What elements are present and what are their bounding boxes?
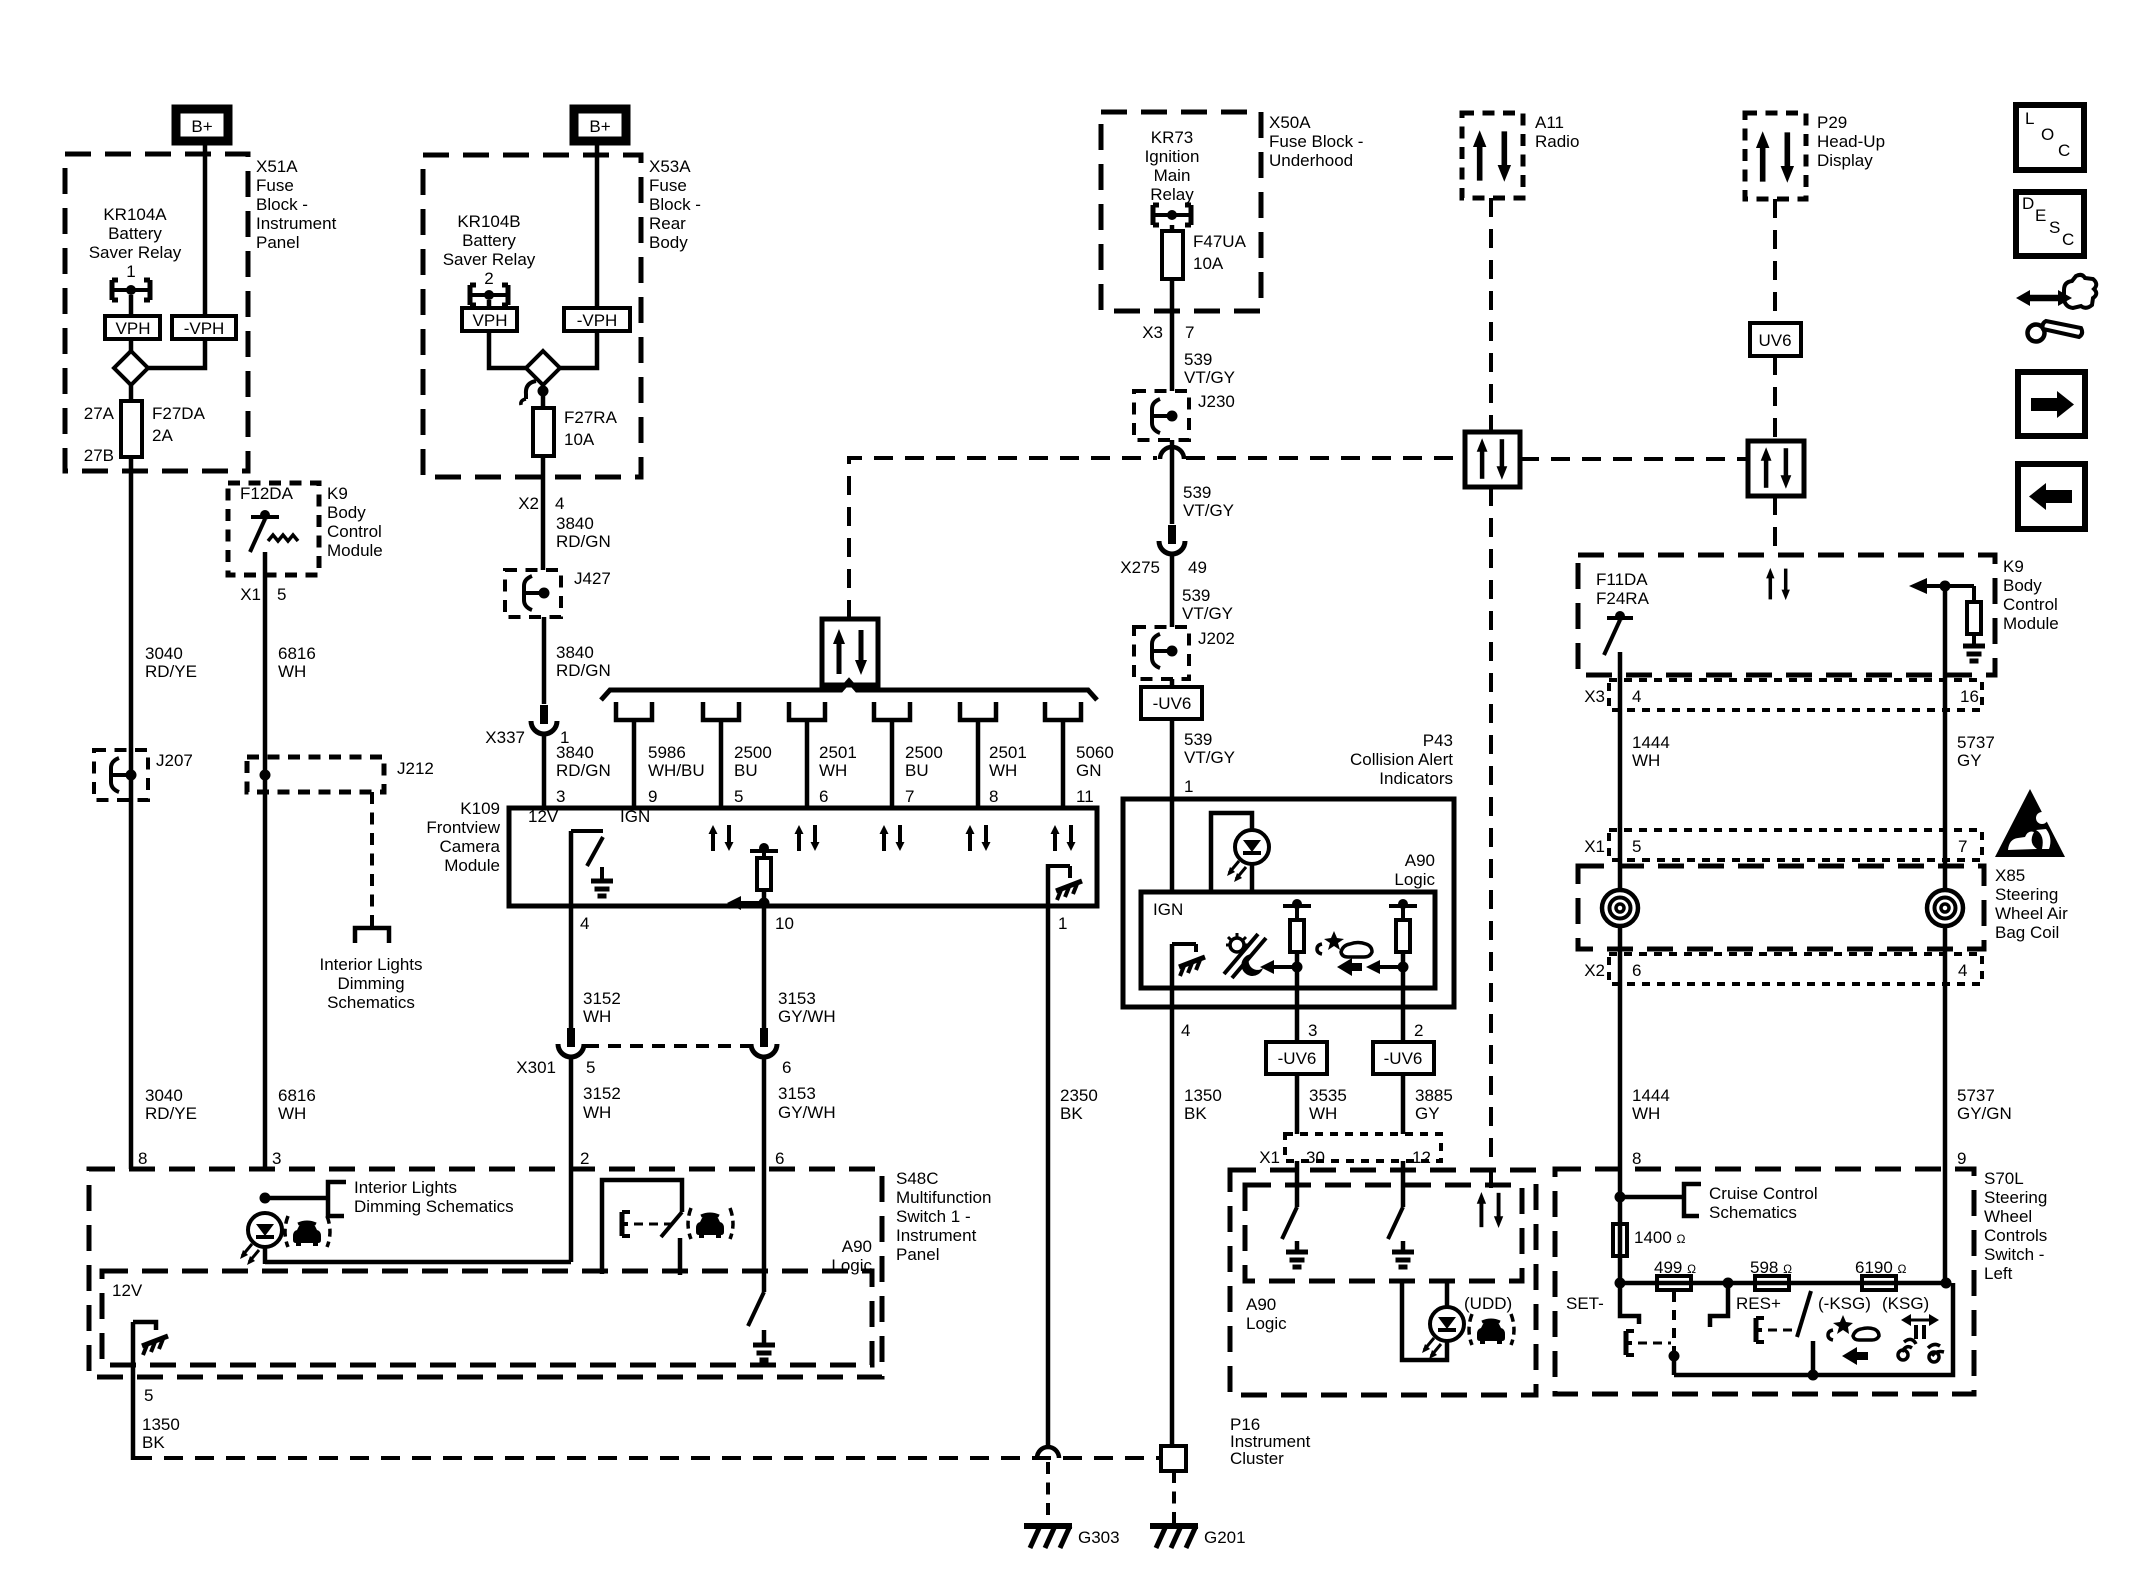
icon forward collision alert: [1828, 1315, 1879, 1365]
terminal box -VPH 2: [564, 308, 630, 331]
wire F27DA down to J207: [129, 457, 134, 770]
wire 5737 below coil: [1943, 926, 1948, 1283]
svg-text:Indicators: Indicators: [1379, 769, 1453, 788]
connector X337: [531, 705, 557, 734]
svg-text:Rear: Rear: [649, 214, 686, 233]
svg-text:Main: Main: [1154, 166, 1191, 185]
svg-text:3840: 3840: [556, 643, 594, 662]
svg-text:X1: X1: [1584, 837, 1605, 856]
air bag coil spiral right: [1927, 890, 1963, 926]
boxed double-arrow node above brace: [822, 619, 878, 685]
label 2501 WH pin 6: [819, 743, 857, 806]
label 3153 GY/WH above X301: [778, 989, 836, 1026]
svg-text:UV6: UV6: [1758, 331, 1791, 350]
svg-text:J202: J202: [1198, 629, 1235, 648]
svg-text:3153: 3153: [778, 989, 816, 1008]
wire switch to X3 band (1444): [1618, 652, 1623, 891]
svg-text:C: C: [2062, 230, 2074, 249]
label 2501 WH pin 8: [989, 743, 1027, 806]
svg-text:Bag Coil: Bag Coil: [1995, 923, 2059, 942]
svg-text:Instrument: Instrument: [896, 1226, 977, 1245]
svg-text:49: 49: [1188, 558, 1207, 577]
svg-text:F24RA: F24RA: [1596, 589, 1650, 608]
wire F12DA to S48C pin 3: [263, 552, 268, 1169]
label 3153 GY/WH below X301: [778, 1084, 836, 1122]
svg-text:Collision Alert: Collision Alert: [1350, 750, 1453, 769]
loop bottom edge: [265, 1260, 571, 1265]
svg-text:P43: P43: [1423, 731, 1453, 750]
svg-text:Body: Body: [649, 233, 688, 252]
svg-text:J207: J207: [156, 751, 193, 770]
dashed wire A11 down to arrow node: [1489, 198, 1493, 432]
label 5986 WH/BU pin 9: [648, 743, 705, 806]
bracket to interior lights dimming: [328, 1182, 346, 1216]
arrows inside K109 under pin 5: [709, 825, 734, 851]
switch to ground P16 pin 30: [1282, 1207, 1308, 1267]
svg-text:A90: A90: [1405, 851, 1435, 870]
svg-text:-VPH: -VPH: [577, 311, 618, 330]
svg-text:B+: B+: [589, 117, 610, 136]
relay coil KR104B: [470, 285, 508, 305]
svg-text:WH: WH: [1309, 1104, 1337, 1123]
A90 logic inner box P43: [1141, 892, 1435, 988]
svg-text:5060: 5060: [1076, 743, 1114, 762]
brace over K109 pins: [601, 681, 1097, 700]
svg-text:9: 9: [1957, 1149, 1966, 1168]
svg-text:4: 4: [580, 914, 589, 933]
svg-text:3040: 3040: [145, 1086, 183, 1105]
junction dot bottom bus: [1808, 1370, 1819, 1381]
wire X275 to J202: [1170, 556, 1175, 627]
svg-text:Ignition: Ignition: [1145, 147, 1200, 166]
svg-text:6: 6: [819, 787, 828, 806]
KSG switch blade: [1797, 1291, 1811, 1337]
svg-text:KR73: KR73: [1151, 128, 1194, 147]
dashed drop to G303: [1046, 1462, 1050, 1524]
wires X1 band into P16: [1297, 1161, 1403, 1207]
wire diamond to fuse F27DA: [129, 385, 134, 401]
svg-text:27A: 27A: [84, 404, 115, 423]
svg-text:Control: Control: [2003, 595, 2058, 614]
dashed wire arrow node to K9: [1773, 496, 1777, 557]
svg-text:A11: A11: [1535, 113, 1564, 132]
svg-text:Panel: Panel: [256, 233, 299, 252]
switch F11DA/F24RA: [1604, 611, 1633, 655]
terminal box VPH 2: [462, 308, 517, 331]
svg-text:Left: Left: [1984, 1264, 2013, 1283]
label 2350 BK: [1060, 1086, 1098, 1123]
wire coil to VPH 2: [487, 300, 492, 308]
label 1350 BK (left): [142, 1415, 180, 1452]
E linkage SET-: [1626, 1331, 1671, 1355]
svg-text:2350: 2350: [1060, 1086, 1098, 1105]
connector band X1 (X85): [1609, 830, 1982, 860]
hop of 2350 wire over dashed path: [1037, 1447, 1059, 1458]
svg-text:Relay: Relay: [1150, 185, 1194, 204]
svg-text:1: 1: [1058, 914, 1067, 933]
svg-text:WH: WH: [819, 761, 847, 780]
pin connector U 5: [703, 702, 739, 808]
svg-text:5: 5: [586, 1058, 595, 1077]
label P29 Head-Up Display: [1817, 113, 1885, 170]
svg-text:10A: 10A: [1193, 254, 1224, 273]
wire diamond to fuse F27RA: [541, 385, 546, 408]
pin connector U 7: [874, 702, 910, 808]
svg-text:X1: X1: [1259, 1148, 1280, 1167]
label wire 6816 WH lower: [278, 1086, 316, 1123]
label 1444 WH (upper): [1632, 733, 1670, 770]
wire B+2 to -VPH: [595, 145, 600, 308]
svg-text:1350: 1350: [1184, 1086, 1222, 1105]
svg-text:C: C: [2058, 141, 2070, 160]
SET- switch contact: [1620, 1283, 1639, 1324]
label A90 Logic (S48C): [831, 1237, 872, 1275]
svg-text:539: 539: [1184, 350, 1212, 369]
B+ terminal 1: [176, 109, 228, 141]
svg-text:4: 4: [1958, 961, 1967, 980]
svg-text:Battery: Battery: [462, 231, 516, 250]
svg-text:KR104A: KR104A: [103, 205, 167, 224]
svg-text:12V: 12V: [112, 1281, 143, 1300]
svg-text:Fuse Block -: Fuse Block -: [1269, 132, 1363, 151]
label A90 Logic (P43): [1394, 851, 1435, 889]
icon button LOC: [2016, 105, 2084, 170]
wire to cruise bracket: [1620, 1195, 1684, 1200]
svg-text:1444: 1444: [1632, 733, 1670, 752]
labels X1 30 12: [1259, 1148, 1431, 1167]
diamond node KR104A: [114, 351, 148, 385]
label wire 3040 RD/YE lower: [145, 1086, 197, 1123]
svg-text:K9: K9: [2003, 557, 2024, 576]
label Interior Lights Dimming Schematics (S48C): [354, 1178, 514, 1216]
label 5737 GY: [1957, 733, 1995, 770]
A11 Radio dashed box: [1462, 113, 1523, 198]
option box -UV6 (539): [1141, 687, 1202, 719]
svg-text:WH: WH: [583, 1007, 611, 1026]
svg-text:Wheel Air: Wheel Air: [1995, 904, 2068, 923]
collision car icon P43: [1317, 931, 1372, 957]
svg-text:RD/GN: RD/GN: [556, 532, 611, 551]
label X53A Fuse Block - Rear Body: [649, 157, 701, 252]
svg-text:8: 8: [138, 1149, 147, 1168]
label KR73 Ignition Main Relay: [1145, 128, 1200, 204]
chassis ground inside K109 (pin 1): [1048, 864, 1082, 906]
svg-text:X2: X2: [518, 494, 539, 513]
arrows in P16 from radio line: [1477, 1192, 1504, 1228]
svg-text:Steering: Steering: [1995, 885, 2058, 904]
svg-text:Control: Control: [327, 522, 382, 541]
svg-text:GY: GY: [1957, 751, 1982, 770]
diamond node KR104B: [526, 351, 560, 385]
boxed double-arrow node (P29 line): [1748, 441, 1804, 496]
svg-text:VT/GY: VT/GY: [1184, 368, 1235, 387]
svg-text:Wheel: Wheel: [1984, 1207, 2032, 1226]
relay coil KR104A: [112, 280, 150, 300]
relay coil KR73: [1153, 205, 1191, 225]
svg-text:X51A: X51A: [256, 157, 298, 176]
svg-text:3885: 3885: [1415, 1086, 1453, 1105]
wire 1444 through S70L: [1618, 1169, 1623, 1283]
wire B+1 to -VPH: [203, 145, 208, 316]
svg-text:3840: 3840: [556, 514, 594, 533]
svg-text:9: 9: [648, 787, 657, 806]
svg-text:J212: J212: [397, 759, 434, 778]
LED branch in P43: [1211, 813, 1269, 892]
label 5060 GN pin 11: [1076, 743, 1114, 806]
label A90 Logic (P16): [1246, 1295, 1287, 1333]
svg-text:Logic: Logic: [1246, 1314, 1287, 1333]
svg-text:27B: 27B: [84, 446, 114, 465]
wire junction to bottom bus: [1672, 1356, 1677, 1375]
svg-text:3040: 3040: [145, 644, 183, 663]
svg-text:11: 11: [1076, 787, 1094, 806]
svg-text:Cruise Control: Cruise Control: [1709, 1184, 1818, 1203]
wire 1444 below coil: [1618, 926, 1623, 1169]
wire VPH2 to diamond: [489, 331, 526, 368]
svg-text:X50A: X50A: [1269, 113, 1311, 132]
labels X1 5 7: [1584, 837, 1967, 856]
wire X337 to K109 pin 3: [542, 736, 547, 808]
svg-text:WH: WH: [278, 1104, 306, 1123]
svg-text:3: 3: [272, 1149, 281, 1168]
svg-text:Body: Body: [2003, 576, 2042, 595]
air bag coil spiral left: [1602, 890, 1638, 926]
label K9 Body Control Module (right): [2003, 557, 2059, 633]
label S48C Multifunction Switch 1 - Instrument Panel: [896, 1169, 991, 1264]
wire X301-5 to S48C pin 2: [569, 1059, 574, 1262]
car icon beside LED: [285, 1216, 330, 1247]
RES+ switch contact: [1710, 1283, 1728, 1327]
fuse block X51A dashed box: [65, 154, 248, 471]
svg-text:A90: A90: [842, 1237, 872, 1256]
bottom bus S70L: [1674, 1373, 1813, 1378]
dashed wire A11 node down to P16: [1489, 487, 1493, 1192]
dashed drop to G201: [1172, 1471, 1176, 1524]
wire -VPH to diamond: [148, 339, 205, 368]
A90 logic dashed box S48C: [102, 1271, 872, 1365]
svg-text:3535: 3535: [1309, 1086, 1347, 1105]
svg-text:J230: J230: [1198, 392, 1235, 411]
wire P43 pin4 (1350 BK) to G201 square: [1170, 1007, 1175, 1446]
label X275 pin 49: [1120, 558, 1207, 577]
switch to ground inside K109 (pin 4): [571, 831, 613, 906]
svg-text:F12DA: F12DA: [240, 484, 294, 503]
svg-text:Fuse: Fuse: [256, 176, 294, 195]
svg-text:Saver Relay: Saver Relay: [443, 250, 536, 269]
svg-text:K109: K109: [460, 799, 500, 818]
svg-text:1: 1: [1184, 777, 1193, 796]
svg-text:E: E: [2035, 206, 2046, 225]
IGN wire to chassis ground in P43: [1172, 944, 1205, 1007]
wire coil to fuse F47UA: [1170, 225, 1175, 231]
E linkage symbol headlamp: [622, 1212, 671, 1236]
label 539 VT/GY (4) and pin 1: [1184, 730, 1235, 796]
resistor 1400 ohm: [1613, 1224, 1686, 1256]
ground G201: [1150, 1526, 1246, 1548]
svg-text:-UV6: -UV6: [1278, 1049, 1317, 1068]
switch blade 3153 to ground: [748, 1292, 775, 1360]
svg-text:Multifunction: Multifunction: [896, 1188, 991, 1207]
svg-text:WH: WH: [989, 761, 1017, 780]
label 3152 WH above X301: [583, 989, 621, 1026]
B+ terminal 2: [574, 109, 626, 141]
svg-text:Block -: Block -: [649, 195, 701, 214]
label X301 pins 5 6: [516, 1058, 791, 1077]
K9 Body Control Module dashed box (right): [1578, 555, 1995, 675]
icon gesture control: [1898, 1314, 1944, 1362]
svg-text:2501: 2501: [819, 743, 857, 762]
svg-text:8: 8: [1632, 1149, 1641, 1168]
wire -UV6 to P43: [1170, 719, 1175, 892]
dashed wire A11 arrows to P29 arrows: [1520, 457, 1748, 461]
option box -UV6 (3535): [1266, 1042, 1327, 1074]
svg-text:539: 539: [1182, 586, 1210, 605]
label 3885 GY: [1415, 1086, 1453, 1123]
svg-text:Block -: Block -: [256, 195, 308, 214]
svg-text:7: 7: [1958, 837, 1967, 856]
G201 connection square: [1161, 1446, 1186, 1471]
svg-text:BK: BK: [1184, 1104, 1207, 1123]
A90 logic dashed box P16: [1245, 1185, 1522, 1281]
resistor with tap inside K109: [727, 843, 778, 910]
svg-text:RD/GN: RD/GN: [556, 761, 611, 780]
svg-text:Frontview: Frontview: [426, 818, 500, 837]
wire coil to VPH: [129, 295, 134, 316]
off-page bracket interior lights: [355, 928, 389, 943]
svg-text:WH: WH: [1632, 751, 1660, 770]
label wire 3040 RD/YE upper: [145, 644, 197, 681]
headlamp switch frame in S48C: [602, 1180, 682, 1275]
svg-text:2: 2: [1414, 1021, 1423, 1040]
svg-text:10: 10: [775, 914, 794, 933]
svg-text:Controls: Controls: [1984, 1226, 2047, 1245]
svg-text:Schematics: Schematics: [327, 993, 415, 1012]
svg-text:5: 5: [277, 585, 286, 604]
label 539 VT/GY (1): [1184, 350, 1235, 387]
label 539 VT/GY (3): [1182, 586, 1233, 623]
pin row X3 7: [1142, 323, 1194, 342]
svg-text:RD/GN: RD/GN: [556, 661, 611, 680]
label 3840 RD/GN (3) and pin 3: [556, 743, 611, 806]
hop of dashed line over 539 wire: [1160, 447, 1184, 459]
svg-text:GY/GN: GY/GN: [1957, 1104, 2012, 1123]
resistor bus S70L: [1620, 1281, 1946, 1286]
svg-text:IGN: IGN: [620, 807, 650, 826]
svg-text:IGN: IGN: [1153, 900, 1183, 919]
svg-text:RES+: RES+: [1736, 1294, 1781, 1313]
fuse block X53A dashed box: [423, 155, 641, 477]
svg-text:X1: X1: [240, 585, 261, 604]
resistor 598 ohm: [1750, 1258, 1792, 1290]
svg-text:5737: 5737: [1957, 733, 1995, 752]
svg-text:3: 3: [1308, 1021, 1317, 1040]
svg-text:BK: BK: [1060, 1104, 1083, 1123]
svg-text:30: 30: [1306, 1148, 1325, 1167]
arrows inside K9 top: [1766, 568, 1790, 600]
icon button arrow right: [2018, 372, 2085, 436]
wire F47UA to J230: [1170, 279, 1175, 391]
splice J427: [505, 569, 611, 617]
wires -UV6 to X1 band: [1297, 1074, 1403, 1134]
svg-text:BU: BU: [734, 761, 758, 780]
connector X301 right half: [751, 1028, 777, 1057]
terminal box VPH: [105, 316, 160, 339]
pin connector U 6: [789, 702, 825, 808]
svg-text:5: 5: [734, 787, 743, 806]
fuse block X50A dashed box: [1101, 112, 1261, 311]
label F47UA 10A: [1193, 232, 1247, 273]
K109 Frontview Camera Module box: [509, 808, 1097, 906]
svg-text:F27DA: F27DA: [152, 404, 206, 423]
P29 Head-Up Display dashed box: [1745, 113, 1806, 199]
airbag warning triangle: [1995, 789, 2065, 857]
X85 Steering Wheel Air Bag Coil dashed box: [1578, 866, 1984, 949]
dashed branch J212 to interior lights: [370, 792, 374, 926]
auto headlamp sun icon P43: [1224, 933, 1266, 978]
svg-text:1350: 1350: [142, 1415, 180, 1434]
svg-text:WH/BU: WH/BU: [648, 761, 705, 780]
switch to ground P16 pin 12: [1388, 1207, 1414, 1267]
option box UV6: [1750, 323, 1801, 356]
svg-text:Fuse: Fuse: [649, 176, 687, 195]
svg-text:2500: 2500: [905, 743, 943, 762]
svg-text:X85: X85: [1995, 866, 2025, 885]
wire J427 to X337: [542, 617, 547, 704]
svg-text:BU: BU: [905, 761, 929, 780]
svg-text:2: 2: [484, 269, 493, 288]
svg-text:(-KSG): (-KSG): [1818, 1294, 1871, 1313]
svg-text:S: S: [2049, 218, 2060, 237]
label Cruise Control Schematics: [1709, 1184, 1818, 1222]
svg-text:-UV6: -UV6: [1384, 1049, 1423, 1068]
pin row X2 4: [518, 494, 564, 513]
splice J207: [94, 750, 193, 800]
svg-text:4: 4: [1181, 1021, 1190, 1040]
fuse F27RA: [533, 408, 554, 456]
resistor 2 P43: [1337, 899, 1417, 995]
arrows inside K109 under pin 11: [1051, 825, 1076, 851]
svg-text:7: 7: [905, 787, 914, 806]
svg-text:8: 8: [989, 787, 998, 806]
svg-text:Interior Lights: Interior Lights: [320, 955, 423, 974]
svg-text:GY/WH: GY/WH: [778, 1103, 836, 1122]
dashed harness between X301 halves: [586, 1044, 750, 1048]
ground G303: [1024, 1526, 1120, 1548]
svg-text:X337: X337: [485, 728, 525, 747]
arrows in A11 box: [1473, 130, 1511, 182]
wire P43 pin2 to -UV6: [1401, 995, 1406, 1042]
svg-text:RD/YE: RD/YE: [145, 662, 197, 681]
resistor 1 P43: [1260, 899, 1311, 995]
junction dot on 6816 wire: [260, 1193, 271, 1204]
svg-text:GN: GN: [1076, 761, 1102, 780]
svg-text:Dimming: Dimming: [337, 974, 404, 993]
labels X3 4 16: [1584, 687, 1979, 706]
label 3840 RD/GN (2): [556, 643, 611, 680]
svg-text:Dimming Schematics: Dimming Schematics: [354, 1197, 514, 1216]
label P43 Collision Alert Indicators: [1350, 731, 1453, 788]
svg-text:X53A: X53A: [649, 157, 691, 176]
svg-text:WH: WH: [278, 662, 306, 681]
svg-text:K9: K9: [327, 484, 348, 503]
label X50A Fuse Block - Underhood: [1269, 113, 1363, 170]
pin connector U 8: [960, 702, 996, 808]
svg-text:1: 1: [126, 262, 135, 281]
svg-text:VPH: VPH: [116, 319, 151, 338]
svg-text:(KSG): (KSG): [1882, 1294, 1929, 1313]
pin labels 4 3 2 under P43: [1181, 1021, 1423, 1040]
label 5737 GY/GN: [1957, 1086, 2012, 1123]
